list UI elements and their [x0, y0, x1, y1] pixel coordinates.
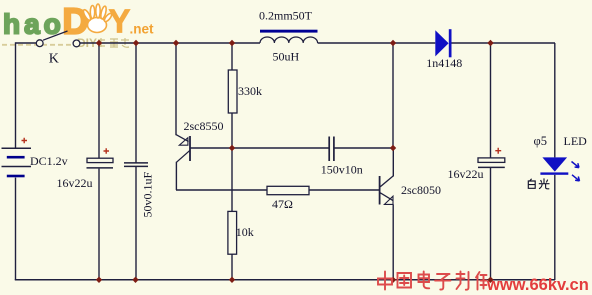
capacitor C4 16v22u right branch [490, 43, 492, 158]
junction top x490 [487, 40, 493, 46]
svg-text:47Ω: 47Ω [272, 197, 293, 211]
wire LED to bottom [554, 175, 556, 280]
svg-text:16v22u: 16v22u [57, 176, 93, 190]
battery plus sign [22, 138, 28, 143]
junction top x393 [390, 40, 396, 46]
resistor R2 10k [228, 211, 237, 254]
svg-text:330k: 330k [238, 84, 262, 98]
wire 47ohm to Q2 base [309, 189, 380, 191]
wire LED branch top [554, 43, 556, 157]
capacitor C3 150v10n plates [329, 137, 334, 162]
resistor R1 330k lead [231, 43, 233, 70]
svg-text:1n4148: 1n4148 [426, 56, 462, 70]
wire bottom rail [15, 279, 555, 281]
wire base line y148 [190, 147, 329, 149]
junction mid x393 [390, 145, 396, 151]
wire top left to switch [16, 42, 37, 44]
switch K circle right [73, 40, 80, 47]
wire 330k to node [231, 113, 233, 148]
svg-text:K: K [49, 51, 59, 66]
junction bottom x490 [487, 277, 493, 283]
resistor R3 47ohm [267, 186, 309, 194]
wire Q2 emitter to bottom [392, 204, 394, 280]
logo hand [82, 4, 113, 33]
junction top x98 [96, 40, 102, 46]
svg-text:.net: .net [130, 22, 155, 37]
wire top inductor to diode [318, 42, 436, 44]
wire cap to node x393 [334, 147, 393, 149]
wire top diode to right corner [452, 42, 556, 44]
svg-text:2sc8050: 2sc8050 [401, 183, 441, 197]
svg-text:16v22u: 16v22u [448, 167, 484, 181]
wire left vertical battery branch [15, 42, 17, 148]
svg-text:50v0.1uF: 50v0.1uF [141, 172, 155, 218]
transistor Q1 emitter lead [175, 43, 177, 135]
watermark DIY text [77, 36, 97, 50]
wire battery to bottom [15, 178, 17, 280]
wire 10k to bottom [231, 254, 233, 280]
junction top x232 [229, 40, 235, 46]
inductor L1 coil [260, 37, 318, 43]
svg-text:LED: LED [564, 134, 588, 148]
junction top x136 [133, 40, 139, 46]
svg-text:DC1.2v: DC1.2v [30, 154, 68, 168]
wire C1 to bottom [98, 169, 100, 280]
resistor R1 330k [228, 70, 237, 113]
switch K circle left [36, 40, 43, 47]
wire node down to 10k [231, 148, 233, 211]
wire C2 to bottom [135, 166, 137, 280]
junction mid x232 [229, 145, 235, 151]
wire node to Q2 collector [392, 148, 394, 176]
LED D2 triangle [542, 157, 567, 171]
LED D2 cathode bar [540, 172, 568, 174]
svg-text:150v10n: 150v10n [321, 162, 363, 176]
wire 47ohm line left [176, 189, 267, 191]
capacitor C4 bottom plate [478, 166, 505, 168]
capacitor C1 plus sign [104, 148, 110, 154]
inductor core bar [260, 30, 318, 33]
diode D1 cathode bar [449, 29, 452, 57]
junction top x176 [173, 40, 179, 46]
junction bottom x135 [132, 277, 138, 283]
capacitor C2 plates [124, 163, 148, 167]
svg-text:0.2mm50T: 0.2mm50T [259, 9, 313, 23]
svg-text:10k: 10k [236, 225, 254, 239]
transistor Q2 2sc8050 [380, 176, 394, 205]
watermark chinese chars [98, 38, 129, 47]
junction bottom x98 [96, 277, 102, 283]
svg-text:50uH: 50uH [273, 50, 300, 64]
capacitor C2 50v0.1uF branch top [135, 43, 137, 163]
svg-text:D: D [63, 1, 89, 42]
label baiguang white light [528, 178, 549, 188]
wire x393 top to node [392, 43, 394, 148]
svg-text:Y: Y [109, 3, 131, 40]
watermark dashed underline [2, 44, 73, 46]
wire top from switch to inductor [80, 42, 260, 44]
capacitor C4 plus plate [478, 158, 505, 163]
capacitor C1 16v22u branch top [98, 43, 100, 158]
svg-text:φ5: φ5 [534, 134, 547, 148]
svg-text:www.66kv.cn: www.66kv.cn [486, 276, 589, 294]
transistor Q1 2sc8550 [176, 135, 190, 163]
capacitor C4 plus sign [495, 148, 501, 154]
capacitor C1 bottom plate [87, 167, 114, 169]
junction bottom x393 [390, 277, 396, 283]
wire Q1 collector down [175, 162, 177, 190]
LED light arrow 1 [572, 162, 580, 168]
switch K lever [43, 31, 68, 40]
battery BT1 [2, 148, 32, 177]
LED light arrow 2 [572, 175, 580, 181]
diode D1 triangle [435, 30, 448, 56]
junction bottom x232 [229, 277, 235, 283]
capacitor C1 plus plate [87, 158, 113, 162]
red watermark chinese zhongguo dianzi zhizuo [378, 272, 487, 290]
svg-text:2sc8550: 2sc8550 [184, 119, 224, 133]
wire C4 to bottom [490, 168, 492, 280]
